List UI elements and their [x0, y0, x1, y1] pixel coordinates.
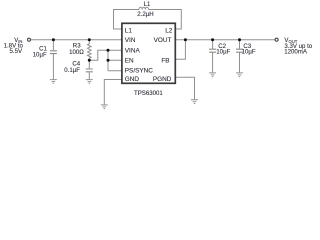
- svg-text:VIN: VIN: [125, 37, 136, 44]
- svg-text:10µF: 10µF: [242, 49, 256, 56]
- svg-text:L1: L1: [125, 27, 133, 34]
- svg-text:10µF: 10µF: [216, 49, 230, 56]
- svg-text:FB: FB: [161, 58, 169, 65]
- svg-text:PS/SYNC: PS/SYNC: [125, 68, 153, 75]
- svg-text:100Ω: 100Ω: [69, 49, 84, 56]
- svg-text:VINA: VINA: [125, 48, 141, 55]
- svg-text:L1: L1: [144, 1, 151, 8]
- svg-text:10µF: 10µF: [33, 51, 47, 58]
- svg-text:PGND: PGND: [153, 76, 172, 83]
- svg-text:VOUT: VOUT: [154, 37, 172, 44]
- svg-text:TPS63001: TPS63001: [134, 90, 163, 97]
- svg-text:L2: L2: [165, 27, 173, 34]
- svg-text:0.1µF: 0.1µF: [64, 67, 80, 74]
- svg-text:2.2µH: 2.2µH: [137, 11, 153, 18]
- svg-text:1200mA: 1200mA: [284, 49, 308, 56]
- svg-text:5.5V: 5.5V: [10, 48, 23, 55]
- svg-text:EN: EN: [125, 57, 134, 64]
- svg-text:GND: GND: [125, 76, 140, 83]
